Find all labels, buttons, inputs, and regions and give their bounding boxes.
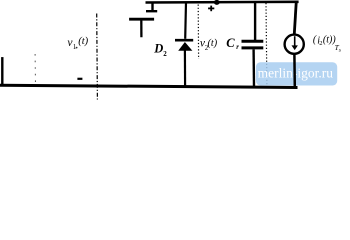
svg-text:s: s <box>339 47 341 53</box>
svg-text:(t): (t) <box>208 38 218 49</box>
svg-text:2: 2 <box>163 50 167 58</box>
svg-text:D: D <box>153 41 163 55</box>
svg-text:(t): (t) <box>78 36 88 47</box>
svg-text:r: r <box>236 44 239 51</box>
svg-text:C: C <box>226 36 235 50</box>
